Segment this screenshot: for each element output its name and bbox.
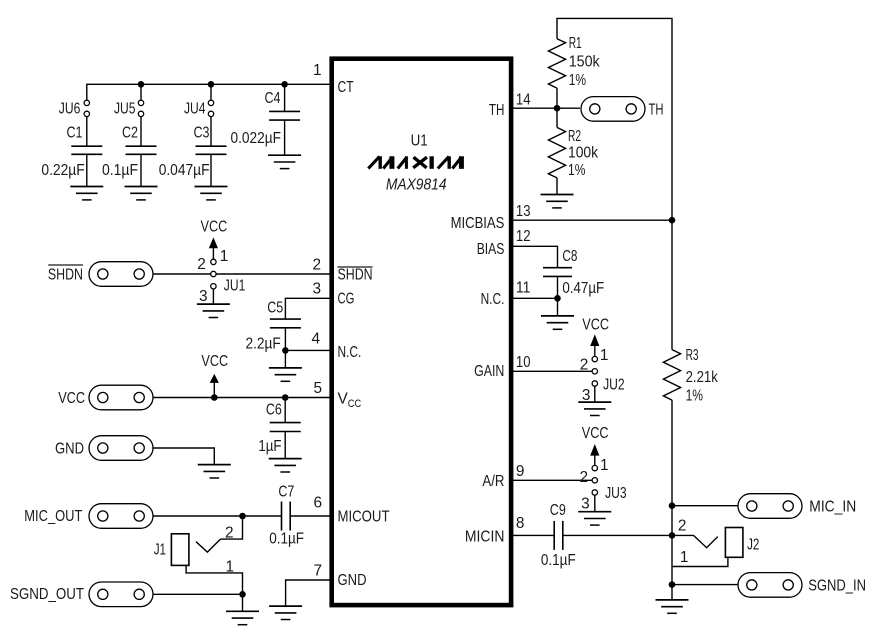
svg-text:BIAS: BIAS: [477, 241, 505, 258]
svg-text:2: 2: [580, 356, 589, 373]
svg-text:2.2µF: 2.2µF: [246, 335, 281, 352]
wire GND pad to ground: [153, 448, 214, 465]
ground at rail bottom: [656, 600, 689, 613]
junction VCC arrow: [211, 394, 218, 401]
wire top net R1 to rail: [557, 18, 672, 349]
pin 5 name VCC: [338, 390, 362, 410]
wire N.C. pin 11: [511, 297, 557, 299]
svg-text:JU6: JU6: [59, 101, 81, 118]
svg-text:1: 1: [680, 549, 689, 566]
wire rail below R3: [671, 400, 673, 600]
TH pad label: [649, 101, 664, 118]
J1 refdes: [154, 542, 166, 559]
svg-text:1%: 1%: [568, 162, 586, 179]
capacitor C5: [270, 319, 301, 328]
svg-text:12: 12: [516, 228, 531, 245]
VCC pad label: [58, 390, 85, 407]
svg-text:GND: GND: [338, 572, 367, 589]
wire JU6 to C1: [86, 117, 88, 147]
wire R1 to TH node: [556, 88, 558, 108]
J1 switch lever: [196, 539, 220, 552]
svg-text:JU2: JU2: [603, 376, 625, 393]
pin 14 name TH: [489, 102, 505, 119]
pin 6 name MICOUT: [338, 509, 391, 526]
svg-text:A/R: A/R: [482, 473, 504, 490]
svg-text:1%: 1%: [686, 387, 704, 404]
svg-text:1%: 1%: [569, 72, 587, 89]
wire C6 branch: [284, 398, 286, 423]
svg-text:GND: GND: [55, 441, 84, 458]
C2 value 0.1uF: [102, 162, 138, 179]
jumper JU2: [592, 356, 597, 386]
wire TH net pin 14: [511, 107, 580, 109]
pad SGND_OUT: [89, 582, 153, 607]
JU5 refdes: [114, 101, 136, 118]
ground under C4: [268, 155, 301, 168]
wire J2 sleeve pin 1: [672, 557, 728, 566]
wire C7 to pin 6: [290, 515, 332, 517]
JU2 pin 3 number: [582, 387, 591, 404]
svg-text:CT: CT: [338, 79, 355, 96]
R1 refdes: [569, 35, 582, 52]
pin 7 name GND: [338, 572, 367, 589]
svg-text:2: 2: [225, 525, 234, 542]
svg-text:MICBIAS: MICBIAS: [451, 215, 505, 232]
VCC symbol above JU1: [201, 218, 228, 259]
svg-text:C6: C6: [266, 401, 282, 418]
J1 pin 2 number: [225, 525, 234, 542]
pin 11 name N.C.: [481, 291, 505, 308]
wire R2 to ground: [556, 178, 558, 195]
svg-text:0.1µF: 0.1µF: [269, 530, 304, 547]
svg-text:SGND_OUT: SGND_OUT: [10, 586, 85, 603]
ground for GND pad: [198, 465, 231, 478]
capacitor C7: [282, 502, 291, 531]
svg-text:1: 1: [600, 347, 609, 364]
svg-text:MICIN: MICIN: [465, 528, 505, 545]
svg-text:0.22µF: 0.22µF: [41, 162, 84, 179]
resistor R3: [663, 350, 680, 401]
ground under C8: [541, 316, 574, 329]
R1 tolerance 1%: [569, 72, 587, 89]
R3 refdes: [686, 347, 699, 364]
capacitor C1: [71, 146, 102, 154]
wire C6 to ground: [284, 432, 286, 459]
wire JU4 top: [210, 84, 212, 100]
ground under C3: [195, 187, 228, 200]
ground under C1: [70, 187, 103, 200]
svg-text:C2: C2: [122, 125, 138, 142]
pin 1 number: [313, 62, 322, 79]
ground under JU2: [578, 402, 611, 415]
svg-text:0.1µF: 0.1µF: [541, 552, 576, 569]
pin 2 number: [312, 256, 321, 273]
svg-text:N.C.: N.C.: [481, 291, 505, 308]
svg-text:CG: CG: [338, 290, 355, 307]
svg-text:CC: CC: [348, 398, 362, 410]
svg-text:100k: 100k: [568, 145, 598, 162]
svg-text:1: 1: [600, 457, 609, 474]
R2 refdes: [568, 128, 581, 145]
JU2 refdes: [603, 376, 625, 393]
capacitor C3: [196, 146, 227, 154]
JU4 refdes: [184, 101, 206, 118]
SGND_IN pad label: [808, 577, 866, 594]
C1 value 0.22uF: [41, 162, 84, 179]
svg-text:2.21k: 2.21k: [686, 369, 718, 386]
svg-text:SHDN: SHDN: [48, 267, 83, 284]
ground under R2: [541, 195, 574, 208]
capacitor C6: [270, 423, 301, 432]
C2 refdes: [122, 125, 138, 142]
svg-text:2: 2: [579, 469, 588, 486]
pin 13 number: [516, 203, 531, 220]
pin 5 number: [313, 380, 322, 397]
svg-text:1: 1: [220, 248, 229, 265]
C8 refdes: [562, 248, 577, 265]
wire JU5 top: [140, 84, 142, 100]
junction C5/N.C. pin 4: [282, 347, 289, 354]
C8 value 0.47uF: [562, 280, 604, 297]
svg-text:0.1µF: 0.1µF: [102, 162, 138, 179]
junction CT/JU4: [208, 81, 215, 88]
capacitor C2: [126, 146, 157, 154]
wire GND pin 7: [286, 580, 332, 606]
svg-text:7: 7: [313, 563, 322, 580]
wire C2 to ground: [140, 154, 142, 186]
jack J2 body: [725, 528, 743, 558]
svg-text:C8: C8: [562, 248, 577, 265]
wire C5 to pin 4 node: [284, 328, 286, 368]
wire JU2 pin3 to ground: [594, 386, 596, 402]
svg-text:0.022µF: 0.022µF: [231, 130, 282, 147]
junction MIC_IN/rail: [669, 502, 676, 509]
svg-text:3: 3: [199, 288, 208, 305]
U1 refdes: [411, 133, 428, 150]
jumper JU1: [211, 259, 216, 289]
JU2 pin 2 number: [580, 356, 589, 373]
C4 refdes: [265, 90, 281, 107]
svg-text:MIC_IN: MIC_IN: [809, 499, 856, 516]
wire J2 tip stub: [672, 534, 694, 536]
wire SGND_IN net: [672, 584, 738, 586]
JU3 pin 1 number: [600, 457, 609, 474]
wire A/R net pin 9: [511, 479, 592, 481]
svg-text:0.047µF: 0.047µF: [159, 162, 210, 179]
wire SGND_OUT net: [153, 593, 243, 595]
VCC symbol above JU3: [582, 425, 609, 465]
svg-text:3: 3: [581, 495, 590, 512]
resistor R2: [548, 127, 565, 177]
wire BIAS net pin 12: [511, 246, 557, 267]
pad VCC: [89, 385, 153, 410]
JU1 pin 2 number: [197, 256, 206, 273]
wire CG net pin 3: [285, 298, 331, 319]
J1 pin 1 number: [225, 559, 234, 576]
wire CT to C4: [284, 84, 286, 111]
pin 12 number: [516, 228, 531, 245]
C7 value 0.1uF: [269, 530, 304, 547]
svg-text:U1: U1: [411, 133, 428, 150]
JU3 refdes: [605, 485, 627, 502]
svg-text:C7: C7: [278, 484, 294, 501]
pin 6 number: [313, 495, 322, 512]
R2 value 100k: [568, 145, 598, 162]
wire JU5 to C2: [140, 117, 142, 147]
svg-text:R1: R1: [569, 35, 582, 52]
svg-text:3: 3: [312, 280, 321, 297]
C3 refdes: [194, 125, 210, 142]
svg-text:TH: TH: [649, 101, 664, 118]
SGND_OUT pad label: [10, 586, 85, 603]
pad SGND_IN: [738, 573, 802, 598]
pin 13 name MICBIAS: [451, 215, 505, 232]
J2 switch lever: [694, 535, 718, 547]
svg-text:J1: J1: [154, 542, 166, 559]
JU1 pin 3 number: [199, 288, 208, 305]
C6 value 1uF: [258, 438, 281, 455]
svg-text:SHDN: SHDN: [338, 266, 373, 283]
pin 9 name A/R: [482, 473, 504, 490]
C9 refdes: [550, 502, 566, 519]
pad MIC_OUT: [89, 504, 153, 529]
junction CT/C4: [281, 81, 288, 88]
jack J1 body: [171, 534, 189, 566]
op-amp U1 MAX9814 box: [332, 59, 511, 605]
MIC_OUT pad label: [24, 508, 83, 525]
wire JU3 pin3 to ground: [594, 495, 596, 512]
wire VCC net pin 5: [153, 397, 332, 399]
svg-text:14: 14: [516, 91, 531, 108]
pin 4 name N.C.: [338, 344, 362, 361]
svg-text:MICOUT: MICOUT: [338, 509, 391, 526]
svg-text:MAX9814: MAX9814: [386, 176, 447, 193]
C1 refdes: [67, 125, 83, 142]
J2 pin 1 number: [680, 549, 689, 566]
svg-text:JU3: JU3: [605, 485, 627, 502]
C3 value 0.047uF: [159, 162, 210, 179]
svg-text:VCC: VCC: [201, 218, 228, 235]
wire C4 to ground: [284, 120, 286, 155]
pin 8 name MICIN: [465, 528, 505, 545]
wire J1 sleeve pin 1: [186, 565, 242, 594]
ground under JU3: [578, 512, 611, 525]
R2 tolerance 1%: [568, 162, 586, 179]
jumper JU5: [138, 100, 143, 116]
pin 14 number: [516, 91, 531, 108]
C5 refdes: [267, 299, 283, 316]
R1 value 150k: [569, 53, 600, 70]
pin 9 number: [516, 463, 525, 480]
MIC_IN pad label: [809, 499, 856, 516]
svg-text:9: 9: [516, 463, 525, 480]
wire SHDN net pin 2: [153, 273, 332, 275]
C9 value 0.1uF: [541, 552, 576, 569]
wire MIC_IN net: [672, 505, 738, 507]
pin 8 number: [516, 515, 525, 532]
ground under JU1: [197, 304, 230, 317]
R3 value 2.21k: [686, 369, 718, 386]
svg-text:1µF: 1µF: [258, 438, 281, 455]
svg-text:JU1: JU1: [224, 278, 246, 295]
jumper JU4: [208, 100, 213, 116]
svg-text:JU4: JU4: [184, 101, 206, 118]
wire J1 tip from junction: [220, 516, 242, 539]
pad TH: [581, 97, 645, 122]
svg-text:C9: C9: [550, 502, 566, 519]
svg-text:J2: J2: [747, 536, 759, 553]
capacitor C4: [269, 111, 300, 120]
junction SGND_OUT/J1: [239, 591, 246, 598]
J2 pin 2 number: [678, 518, 687, 535]
pad SHDN: [89, 262, 153, 287]
C4 value 0.022uF: [231, 130, 282, 147]
JU3 pin 3 number: [581, 495, 590, 512]
wire N.C. pin 4: [285, 349, 331, 351]
svg-text:6: 6: [313, 495, 322, 512]
wire TH node to R2: [556, 108, 558, 127]
pin 7 number: [313, 563, 322, 580]
VCC symbol on VCC net: [201, 353, 228, 397]
pin 11 number: [516, 280, 531, 297]
junction CT/JU5: [138, 81, 145, 88]
svg-text:VCC: VCC: [58, 390, 85, 407]
junction TH node: [554, 105, 561, 112]
svg-text:MIC_OUT: MIC_OUT: [24, 508, 83, 525]
svg-text:VCC: VCC: [201, 353, 228, 370]
pin 10 name GAIN: [474, 363, 504, 380]
pin 1 name CT: [338, 79, 355, 96]
jumper JU3: [592, 465, 597, 495]
wire C9 to MICIN node: [563, 534, 672, 536]
junction VCC/C6: [282, 394, 289, 401]
jumper JU6: [84, 100, 89, 116]
svg-text:C1: C1: [67, 125, 83, 142]
junction C8/N.C. pin 11: [554, 295, 561, 302]
ground under C2: [125, 187, 158, 200]
wire MICBIAS net pin 13: [511, 219, 672, 221]
wire C3 to ground: [210, 154, 212, 186]
svg-text:2: 2: [678, 518, 687, 535]
JU1 refdes: [224, 278, 246, 295]
svg-text:150k: 150k: [569, 53, 600, 70]
svg-text:VCC: VCC: [582, 425, 609, 442]
svg-text:8: 8: [516, 515, 525, 532]
JU3 pin 2 number: [579, 469, 588, 486]
ground at pin 7: [269, 606, 302, 619]
svg-text:5: 5: [313, 380, 322, 397]
J2 refdes: [747, 536, 759, 553]
U1 part number MAX9814: [386, 176, 447, 193]
svg-text:VCC: VCC: [582, 316, 609, 333]
svg-text:N.C.: N.C.: [338, 344, 362, 361]
wire SGND_OUT to ground: [242, 594, 244, 611]
JU6 refdes: [59, 101, 81, 118]
pin 3 name CG: [338, 290, 355, 307]
wire JU4 to C3: [210, 117, 212, 147]
junction SGND_IN/rail: [669, 581, 676, 588]
junction MICIN/rail: [669, 532, 676, 539]
svg-text:4: 4: [311, 331, 320, 348]
wire CT net pin 1: [87, 84, 332, 100]
C7 refdes: [278, 484, 294, 501]
svg-text:GAIN: GAIN: [474, 363, 504, 380]
svg-text:R3: R3: [686, 347, 699, 364]
junction MICBIAS/rail: [669, 217, 676, 224]
pin 10 number: [516, 354, 531, 371]
wire MIC_OUT to C7: [153, 515, 282, 517]
svg-text:0.47µF: 0.47µF: [562, 280, 604, 297]
svg-text:11: 11: [516, 280, 531, 297]
svg-text:SGND_IN: SGND_IN: [808, 577, 866, 594]
capacitor C9: [554, 521, 563, 550]
svg-text:2: 2: [312, 256, 321, 273]
svg-text:13: 13: [516, 203, 531, 220]
pin 2 name SHDN: [338, 266, 373, 283]
pin 4 number: [311, 331, 320, 348]
pin 12 name BIAS: [477, 241, 505, 258]
SHDN pad label: [48, 265, 83, 284]
svg-text:10: 10: [516, 354, 531, 371]
ground under J1: [226, 611, 259, 624]
wire C8 to ground: [557, 276, 559, 316]
JU1 pin 1 number: [220, 248, 229, 265]
ground under C5: [269, 368, 302, 381]
pad GND: [89, 436, 153, 461]
svg-text:TH: TH: [489, 102, 505, 119]
svg-text:C3: C3: [194, 125, 210, 142]
svg-text:2: 2: [197, 256, 206, 273]
JU2 pin 1 number: [600, 347, 609, 364]
capacitor C8: [543, 268, 572, 277]
wire MICIN pin 8 to C9: [511, 534, 554, 536]
wire C1 to ground: [86, 154, 88, 186]
R3 tolerance 1%: [686, 387, 704, 404]
svg-text:1: 1: [313, 62, 322, 79]
C6 refdes: [266, 401, 282, 418]
VCC symbol above JU2: [582, 316, 609, 356]
resistor R1: [548, 39, 565, 88]
pad MIC_IN: [738, 494, 802, 519]
svg-text:JU5: JU5: [114, 101, 136, 118]
wire GAIN net pin 10: [511, 370, 592, 372]
junction MIC_OUT/J1: [239, 513, 246, 520]
ground under C6: [269, 459, 302, 472]
pin 3 number: [312, 280, 321, 297]
svg-text:C4: C4: [265, 90, 281, 107]
wire JU1 pin3 to ground: [212, 289, 214, 304]
svg-text:C5: C5: [267, 299, 283, 316]
MAXIM logo: [368, 156, 464, 169]
svg-text:R2: R2: [568, 128, 581, 145]
GND pad label: [55, 441, 84, 458]
C5 value 2.2uF: [246, 335, 281, 352]
